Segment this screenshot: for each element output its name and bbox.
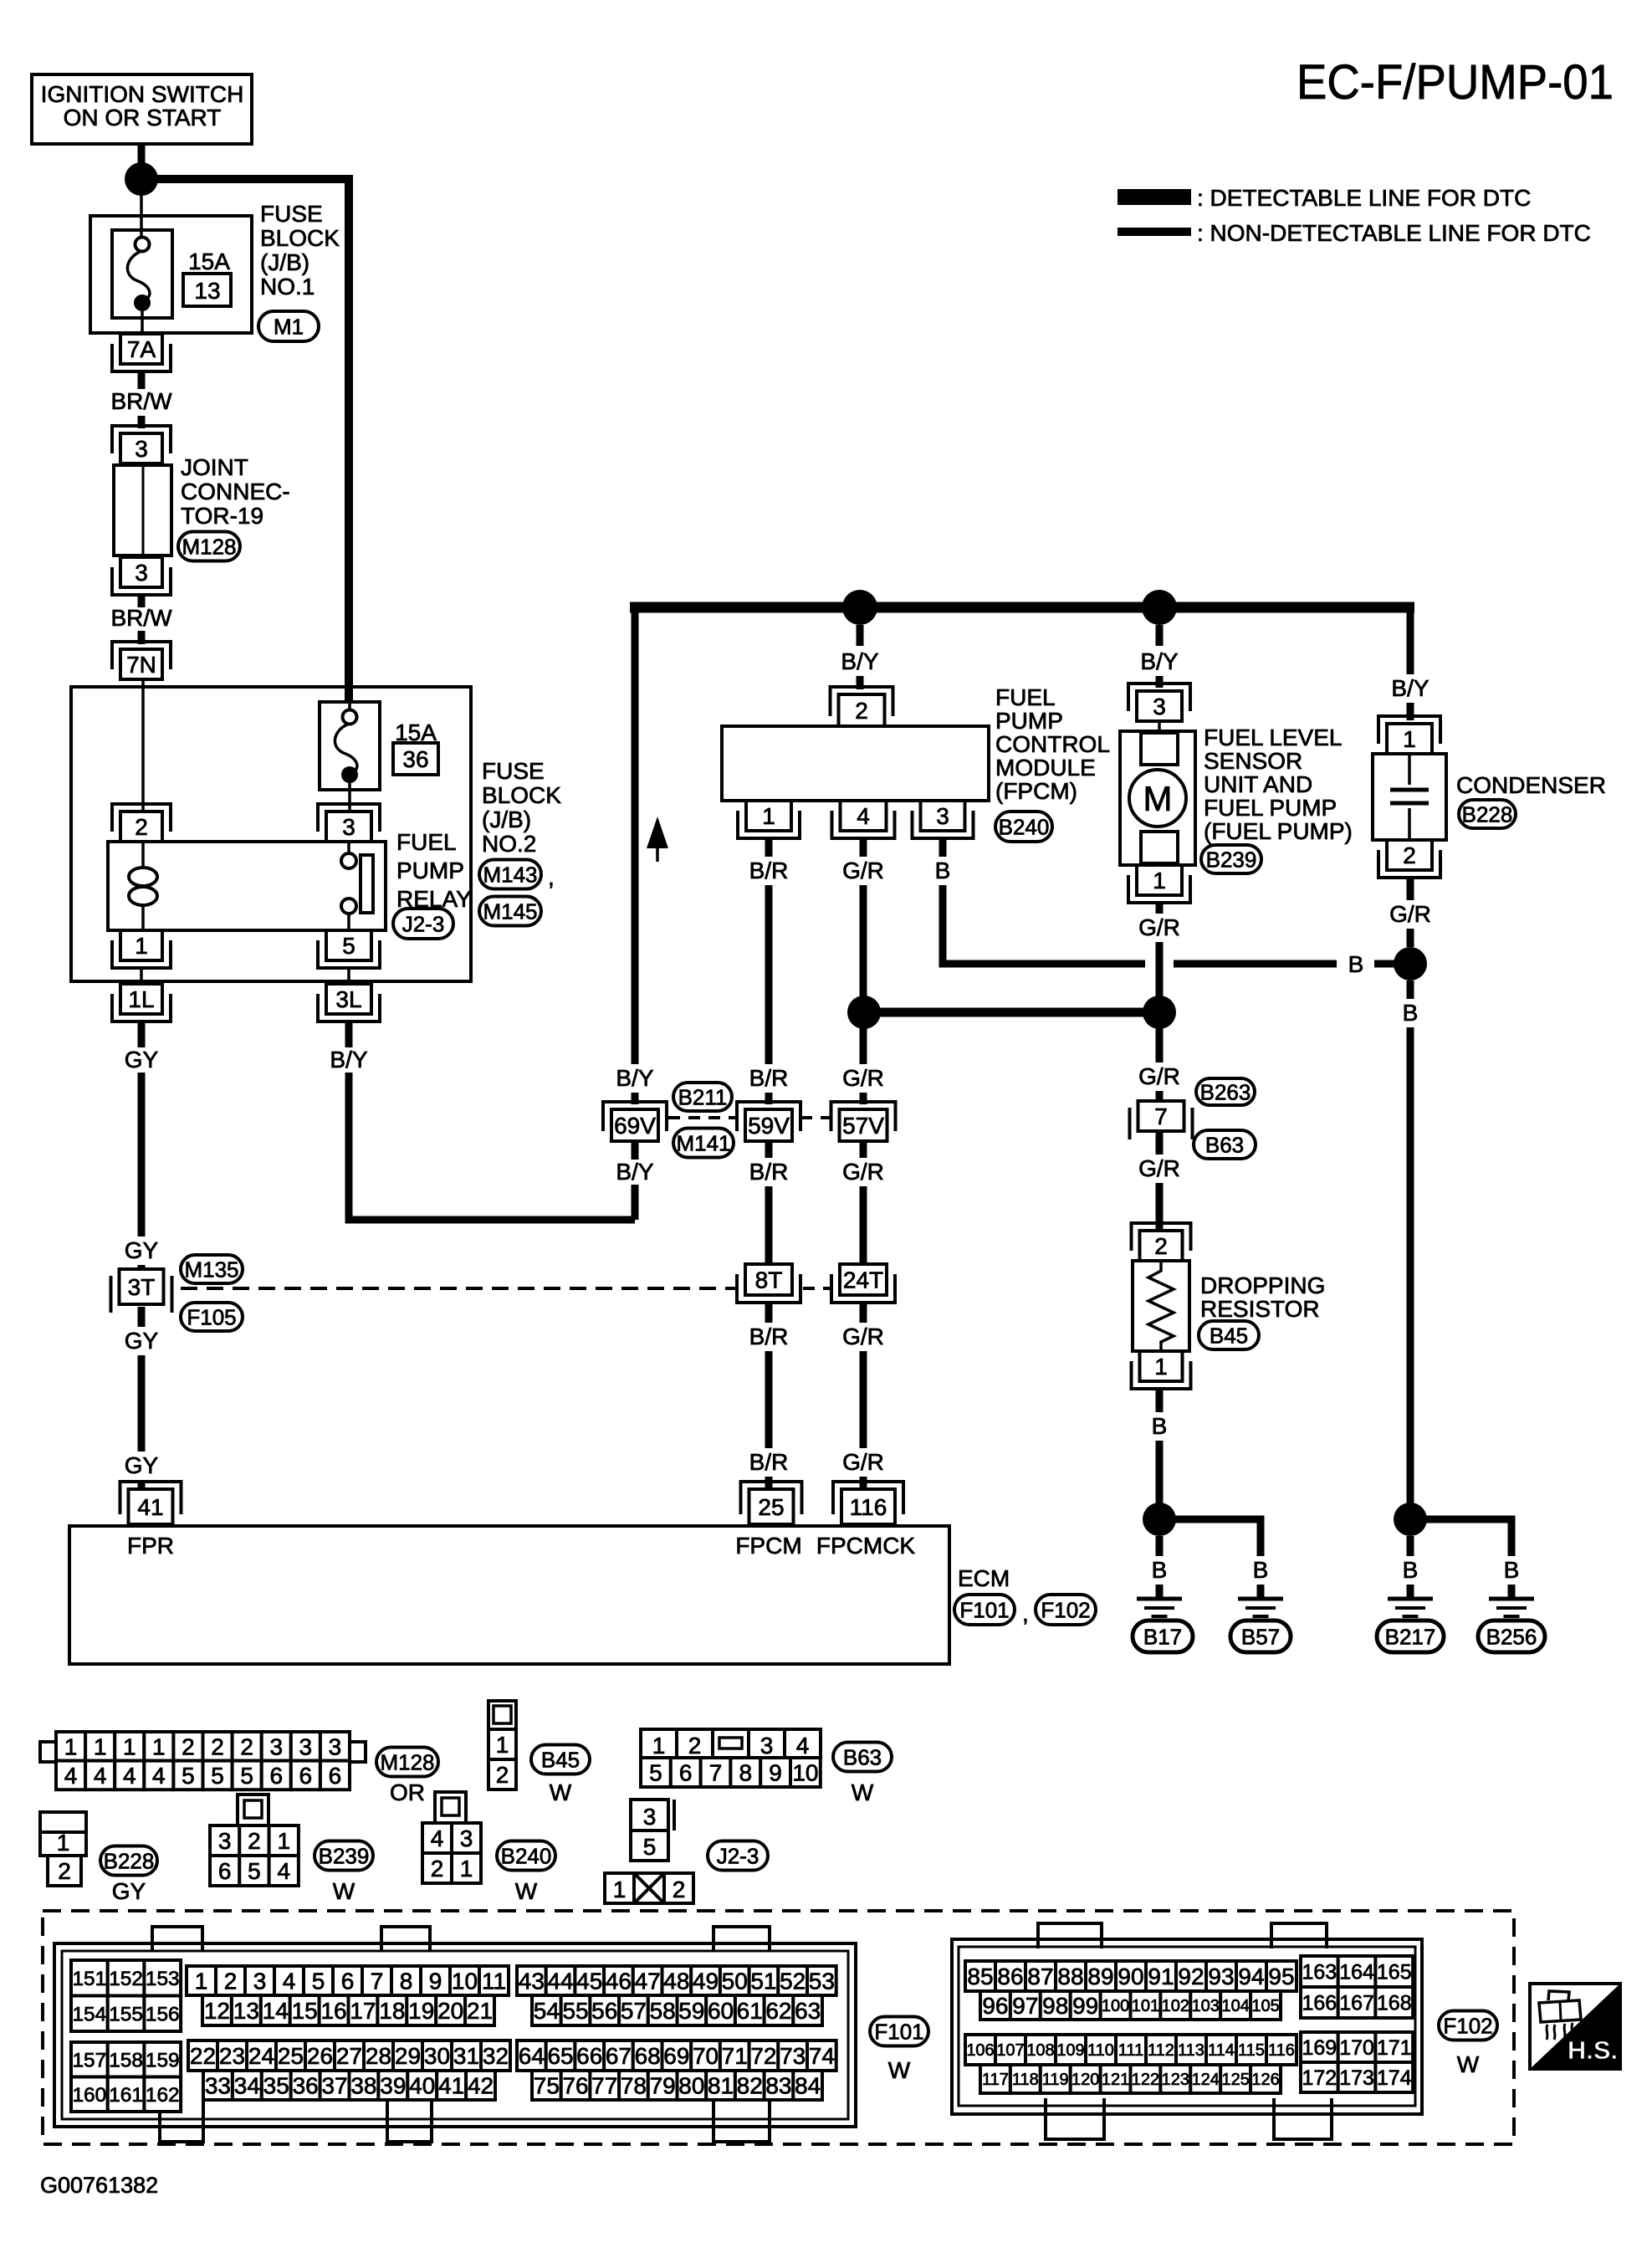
svg-text:114: 114 xyxy=(1208,2041,1235,2060)
svg-text:100: 100 xyxy=(1102,1997,1129,2015)
G/R cross bus wire xyxy=(864,1008,1159,1017)
wire 24T to ECM pin 116 (G/R) xyxy=(860,1303,867,1489)
relay pin 5 xyxy=(318,930,380,968)
svg-text:M1: M1 xyxy=(274,314,304,339)
wire FPCM pin4 to 57V (G/R) xyxy=(860,838,867,1104)
svg-text:H.S.: H.S. xyxy=(1568,2035,1618,2065)
svg-text:173: 173 xyxy=(1339,2066,1374,2090)
svg-text:87: 87 xyxy=(1027,1964,1053,1989)
svg-text:G/R: G/R xyxy=(842,1449,884,1475)
label G/R below connector 7 xyxy=(1138,1155,1180,1181)
svg-text:170: 170 xyxy=(1339,2036,1374,2060)
svg-text:2: 2 xyxy=(855,698,868,724)
label ECM xyxy=(958,1565,1010,1591)
wire 57V to 24T (G/R) xyxy=(860,1141,867,1264)
label BR/W upper xyxy=(110,388,172,414)
pin 7N of fuse block no.2 xyxy=(112,642,171,679)
wire branch to ground B57 xyxy=(1159,1519,1261,1599)
svg-text:103: 103 xyxy=(1192,1997,1220,2015)
F101 top tabs xyxy=(152,1927,770,1952)
label GY above 3T xyxy=(125,1237,159,1263)
svg-text:62: 62 xyxy=(765,1998,791,2024)
label B/Y above condenser xyxy=(1391,675,1429,701)
label FPCMCK pin name xyxy=(816,1533,916,1559)
svg-text:B/R: B/R xyxy=(749,1449,789,1475)
svg-text:9: 9 xyxy=(429,1969,442,1994)
svg-text:161: 161 xyxy=(109,2084,143,2107)
label FUSE BLOCK (J/B) NO.1 xyxy=(260,201,340,300)
svg-text:24: 24 xyxy=(248,2043,274,2069)
svg-text:85: 85 xyxy=(967,1964,993,1989)
ground symbol B57 xyxy=(1238,1599,1283,1616)
wire bus corner to condenser pin 1 xyxy=(1407,603,1414,720)
dashed link 69V-59V xyxy=(668,1116,737,1119)
dashed harness box xyxy=(43,1911,1514,2144)
svg-text:1: 1 xyxy=(64,1733,78,1759)
svg-text:FUSE: FUSE xyxy=(482,758,545,784)
relay contact xyxy=(341,842,373,930)
svg-text:2: 2 xyxy=(182,1733,195,1759)
svg-text:1: 1 xyxy=(652,1733,666,1759)
F102 pin grid 163-174 xyxy=(1301,1956,1413,2092)
svg-text:NO.1: NO.1 xyxy=(260,274,315,300)
ECM pin 25 xyxy=(741,1482,802,1524)
svg-text:153: 153 xyxy=(146,1968,180,1990)
svg-text:GY: GY xyxy=(125,1237,159,1263)
F101 pin row 22-32 xyxy=(188,2040,510,2071)
label G/R below 24T xyxy=(842,1324,884,1349)
svg-text:(FPCM): (FPCM) xyxy=(995,778,1077,804)
label FUEL LEVEL SENSOR UNIT AND FUEL PUMP xyxy=(1204,725,1353,844)
svg-text:2: 2 xyxy=(240,1733,253,1759)
label B/R below 59V xyxy=(749,1159,789,1185)
svg-text:2: 2 xyxy=(496,1762,509,1788)
dropping resistor pin 2 xyxy=(1132,1223,1191,1261)
junction dot ground B17/B57 xyxy=(1143,1503,1176,1536)
fuel pump pin 3 xyxy=(1128,684,1190,721)
svg-text:G/R: G/R xyxy=(1138,1155,1180,1181)
svg-text:G/R: G/R xyxy=(842,1324,884,1349)
svg-text:B/Y: B/Y xyxy=(1391,675,1429,701)
svg-text:1: 1 xyxy=(1403,726,1416,752)
title EC-F/PUMP-01 xyxy=(1297,55,1614,110)
svg-text:163: 163 xyxy=(1302,1961,1337,1984)
svg-text:51: 51 xyxy=(750,1969,776,1994)
svg-text:G/R: G/R xyxy=(1138,914,1180,940)
svg-text:90: 90 xyxy=(1118,1964,1143,1989)
svg-text:B: B xyxy=(1152,1557,1168,1583)
label DROPPING RESISTOR xyxy=(1200,1272,1325,1322)
svg-text:22: 22 xyxy=(190,2043,216,2069)
svg-text:F101: F101 xyxy=(874,2019,923,2044)
svg-text:6: 6 xyxy=(341,1969,355,1994)
wire branch to ground B256 xyxy=(1410,1519,1511,1599)
svg-text:W: W xyxy=(1457,2051,1480,2077)
svg-text:30: 30 xyxy=(424,2043,450,2069)
svg-text:B: B xyxy=(1152,1413,1168,1439)
svg-text:109: 109 xyxy=(1056,2041,1084,2060)
svg-text:164: 164 xyxy=(1339,1961,1374,1984)
svg-text:B/Y: B/Y xyxy=(330,1047,367,1073)
svg-text:2: 2 xyxy=(135,814,148,840)
label B/R below 8T xyxy=(749,1324,789,1349)
fuse 15A-36 symbol xyxy=(320,702,380,812)
connector B239 oval xyxy=(1201,845,1261,873)
svg-text:104: 104 xyxy=(1221,1997,1249,2015)
fuse 15A-13 symbol xyxy=(112,230,172,334)
svg-text:4: 4 xyxy=(64,1763,78,1789)
junction dot G/R bus right xyxy=(1143,996,1176,1029)
svg-text:99: 99 xyxy=(1072,1993,1098,2019)
wire connector 7 to dropping resistor (G/R) xyxy=(1156,1131,1164,1231)
pinout B63 grid row2 xyxy=(641,1758,821,1787)
svg-text:13: 13 xyxy=(233,1998,259,2024)
svg-text:110: 110 xyxy=(1087,2041,1114,2060)
svg-text:B256: B256 xyxy=(1486,1624,1537,1649)
ECM connector F101 shell xyxy=(54,1943,856,2127)
label BR/W lower xyxy=(110,605,172,631)
svg-text:105: 105 xyxy=(1251,1997,1279,2015)
svg-text:106: 106 xyxy=(966,2041,994,2060)
dashed link 3T-8T xyxy=(181,1287,736,1290)
svg-text:118: 118 xyxy=(1012,2071,1039,2089)
wire 7N to relay pin 2 xyxy=(141,679,145,812)
junction dot bus to FPCM xyxy=(842,590,877,625)
svg-text:75: 75 xyxy=(534,2073,560,2099)
svg-text:PUMP: PUMP xyxy=(995,708,1063,734)
svg-text:EC-F/PUMP-01: EC-F/PUMP-01 xyxy=(1297,55,1614,110)
dashed link 59V-57V xyxy=(800,1116,831,1119)
connector M143 oval xyxy=(479,860,555,891)
svg-text:2: 2 xyxy=(224,1969,238,1994)
svg-text:83: 83 xyxy=(765,2073,791,2099)
svg-text:78: 78 xyxy=(621,2073,647,2099)
junction dot ground B217/B256 xyxy=(1394,1503,1427,1536)
F101 pin row 12-21 xyxy=(202,1995,494,2025)
svg-text:93: 93 xyxy=(1208,1964,1234,1989)
pin 3L xyxy=(318,984,380,1021)
svg-text:5: 5 xyxy=(312,1969,325,1994)
svg-text:W: W xyxy=(333,1878,355,1904)
pinout B239 grid xyxy=(210,1825,299,1886)
svg-text:3: 3 xyxy=(269,1733,283,1759)
svg-text:7A: 7A xyxy=(127,336,156,362)
relay pin 3 xyxy=(318,804,380,842)
svg-text:67: 67 xyxy=(606,2043,632,2069)
junction dot bus to fuel pump xyxy=(1142,590,1177,625)
svg-text:OR: OR xyxy=(390,1779,425,1805)
svg-text:3: 3 xyxy=(135,560,148,586)
fuse number 36 box xyxy=(393,743,438,775)
svg-text:35: 35 xyxy=(263,2073,289,2099)
label FPCM pin name xyxy=(735,1533,801,1559)
svg-text:5: 5 xyxy=(182,1763,195,1789)
svg-text:98: 98 xyxy=(1042,1993,1068,2019)
svg-text:10: 10 xyxy=(452,1969,478,1994)
svg-text:32: 32 xyxy=(483,2043,509,2069)
label W (F101) xyxy=(888,2057,911,2083)
pinout M128 oval xyxy=(376,1748,438,1777)
svg-text:8T: 8T xyxy=(755,1267,783,1293)
label B/Y below 3L xyxy=(330,1047,367,1073)
svg-text:5: 5 xyxy=(248,1858,261,1884)
svg-text:7: 7 xyxy=(709,1760,723,1786)
svg-text:F101: F101 xyxy=(959,1597,1009,1622)
label FUEL PUMP CONTROL MODULE (FPCM) xyxy=(995,684,1110,804)
svg-text:,: , xyxy=(1022,1600,1029,1626)
svg-text:FPCMCK: FPCMCK xyxy=(816,1533,916,1559)
label B below condenser junction xyxy=(1403,1000,1419,1026)
svg-text:80: 80 xyxy=(678,2073,704,2099)
svg-text:B239: B239 xyxy=(1206,847,1257,872)
svg-text:5: 5 xyxy=(342,933,355,959)
svg-text:FUEL: FUEL xyxy=(396,829,457,855)
svg-text:41: 41 xyxy=(137,1494,163,1520)
pinout B228 cells xyxy=(40,1812,86,1886)
svg-text:24T: 24T xyxy=(843,1267,883,1293)
svg-text:B/Y: B/Y xyxy=(841,648,878,674)
svg-text:ECM: ECM xyxy=(958,1565,1010,1591)
svg-text:B228: B228 xyxy=(104,1848,155,1873)
svg-text:4: 4 xyxy=(857,803,870,829)
svg-text:162: 162 xyxy=(146,2084,180,2107)
svg-text:B211: B211 xyxy=(678,1084,728,1109)
svg-text:GY: GY xyxy=(125,1452,159,1478)
svg-text:B/Y: B/Y xyxy=(1140,648,1178,674)
svg-text:50: 50 xyxy=(722,1969,748,1994)
svg-text:125: 125 xyxy=(1221,2071,1249,2089)
FPCM pin 1 xyxy=(738,801,800,838)
svg-text:61: 61 xyxy=(737,1998,763,2024)
connector 3T xyxy=(111,1269,172,1313)
svg-text:,: , xyxy=(548,864,555,890)
svg-text:112: 112 xyxy=(1148,2041,1174,2060)
connector F102 oval (ECM) xyxy=(1036,1595,1096,1625)
wire 59V to 8T (B/R) xyxy=(765,1141,773,1264)
svg-text:F102: F102 xyxy=(1041,1597,1090,1622)
svg-text:B217: B217 xyxy=(1385,1624,1436,1649)
svg-text:M128: M128 xyxy=(380,1749,434,1774)
label B under FPCM xyxy=(935,858,951,883)
ECM pin 41 xyxy=(120,1482,182,1524)
svg-text:3: 3 xyxy=(218,1828,232,1854)
svg-text:GY: GY xyxy=(125,1047,159,1073)
svg-text:13: 13 xyxy=(194,278,220,304)
fuel pump relay box xyxy=(108,842,386,930)
label 15A (fuse 13) xyxy=(188,248,230,274)
svg-text:8: 8 xyxy=(400,1969,413,1994)
svg-text:14: 14 xyxy=(263,1998,289,2024)
svg-text:W: W xyxy=(550,1779,572,1805)
wire 1L to 3T (GY) xyxy=(138,1021,146,1272)
wire relay pin 1 to 1L xyxy=(140,968,143,984)
wire to ground B217 xyxy=(1407,1536,1414,1599)
label B/Y above FPCM xyxy=(841,648,878,674)
wire junction to ground junction (B) xyxy=(1407,981,1414,1504)
wire corner up through 69V to bus xyxy=(632,603,639,1220)
svg-text:108: 108 xyxy=(1026,2041,1054,2060)
ground symbol B256 xyxy=(1489,1599,1534,1616)
FPCM pin 3 xyxy=(913,801,974,838)
svg-text:J2-3: J2-3 xyxy=(402,911,445,936)
svg-text:BLOCK: BLOCK xyxy=(482,782,561,808)
fuse number 13 box xyxy=(183,274,231,306)
svg-text:4: 4 xyxy=(283,1969,296,1994)
svg-text:7: 7 xyxy=(1154,1103,1168,1129)
svg-text:F105: F105 xyxy=(187,1304,236,1329)
relay coil xyxy=(129,842,157,930)
svg-text:1: 1 xyxy=(57,1830,70,1856)
svg-text:B: B xyxy=(1348,951,1364,977)
svg-text:38: 38 xyxy=(350,2073,376,2099)
wire resistor to ground junction (B) xyxy=(1156,1389,1164,1504)
label G/R below condenser xyxy=(1389,901,1431,927)
svg-text:21: 21 xyxy=(467,1998,493,2024)
svg-text:2: 2 xyxy=(1154,1233,1168,1259)
connector F102 oval (pinout) xyxy=(1439,2011,1497,2040)
svg-text:CONTROL: CONTROL xyxy=(995,731,1110,757)
pinout B45 cells xyxy=(488,1701,516,1790)
label B on pin3 wire xyxy=(1348,951,1364,977)
label W (B240) xyxy=(515,1878,538,1904)
svg-text:F102: F102 xyxy=(1443,2013,1492,2038)
svg-text:63: 63 xyxy=(795,1998,821,2024)
wire ignition switch to splice xyxy=(138,144,146,167)
svg-text:53: 53 xyxy=(809,1969,835,1994)
svg-text:84: 84 xyxy=(795,2073,821,2099)
F101 pin row 75-84 xyxy=(532,2071,822,2100)
svg-text:2: 2 xyxy=(688,1733,702,1759)
svg-text:27: 27 xyxy=(336,2043,362,2069)
svg-text:B: B xyxy=(1403,1557,1419,1583)
label G/R below 57V xyxy=(842,1159,884,1185)
svg-text:122: 122 xyxy=(1132,2071,1159,2089)
svg-text:6: 6 xyxy=(218,1858,232,1884)
dropping resistor pin 1 xyxy=(1132,1351,1191,1389)
wire 3L to 69V corner (B/Y) xyxy=(349,1021,635,1220)
svg-text:42: 42 xyxy=(468,2073,494,2099)
svg-text:15A: 15A xyxy=(188,248,230,274)
svg-text:54: 54 xyxy=(534,1998,560,2024)
fuel pump motor M xyxy=(1129,770,1186,827)
svg-text:117: 117 xyxy=(982,2071,1009,2089)
connector 8T xyxy=(737,1264,800,1303)
svg-text:: DETECTABLE LINE FOR DTC: : DETECTABLE LINE FOR DTC xyxy=(1197,185,1531,211)
F102 pin row 96-105 xyxy=(980,1991,1281,2020)
label B/R above 59V xyxy=(749,1065,789,1091)
svg-text:1: 1 xyxy=(123,1733,136,1759)
svg-text:ON OR START: ON OR START xyxy=(64,105,222,131)
ground symbol B217 xyxy=(1388,1599,1433,1616)
ground B17 oval xyxy=(1133,1621,1193,1652)
svg-text:19: 19 xyxy=(408,1998,434,2024)
svg-text:2: 2 xyxy=(211,1733,224,1759)
svg-text:B/R: B/R xyxy=(749,1065,789,1091)
svg-text:86: 86 xyxy=(997,1964,1023,1989)
pin 7A of fuse block no.1 xyxy=(112,334,171,371)
svg-text:B: B xyxy=(1253,1557,1269,1583)
svg-text:172: 172 xyxy=(1302,2066,1337,2090)
svg-text:49: 49 xyxy=(693,1969,719,1994)
connector M135 oval xyxy=(181,1255,243,1283)
connector B228 oval xyxy=(1459,800,1516,828)
label GY below 1L xyxy=(125,1047,159,1073)
svg-text:FPR: FPR xyxy=(127,1533,174,1559)
condenser body xyxy=(1373,754,1446,840)
svg-text:57: 57 xyxy=(621,1998,647,2024)
svg-text:1: 1 xyxy=(613,1877,627,1902)
svg-text:89: 89 xyxy=(1087,1964,1113,1989)
svg-text:73: 73 xyxy=(780,2043,806,2069)
svg-text:115: 115 xyxy=(1238,2041,1265,2060)
connector 7 xyxy=(1130,1101,1193,1139)
svg-text:52: 52 xyxy=(780,1969,806,1994)
ground symbol B17 xyxy=(1137,1599,1182,1616)
svg-text:CONNEC-: CONNEC- xyxy=(181,479,290,504)
label B at B217 xyxy=(1403,1557,1419,1583)
FPCM pin 4 xyxy=(832,801,895,838)
label B/R under FPCM xyxy=(749,858,789,883)
svg-text:12: 12 xyxy=(204,1998,230,2024)
svg-text:M128: M128 xyxy=(182,534,236,559)
pinout J2-3 cell 5 xyxy=(631,1830,668,1861)
label B/Y above pump xyxy=(1140,648,1178,674)
pin 3 bottom of joint connector xyxy=(112,557,171,595)
svg-text:66: 66 xyxy=(576,2043,602,2069)
svg-text:81: 81 xyxy=(708,2073,734,2099)
svg-text:1: 1 xyxy=(762,803,775,829)
svg-text:: NON-DETECTABLE LINE FOR DTC: : NON-DETECTABLE LINE FOR DTC xyxy=(1197,220,1591,246)
svg-text:4: 4 xyxy=(277,1858,290,1884)
svg-text:BR/W: BR/W xyxy=(110,605,172,631)
legend label detectable xyxy=(1197,185,1531,211)
joint connector-19 body xyxy=(114,465,171,556)
wire FPCM pin1 to 59V (B/R) xyxy=(765,838,773,1104)
connector F101 oval (ECM) xyxy=(954,1595,1029,1626)
top bus wire (B/Y) xyxy=(630,602,1414,613)
svg-text:5: 5 xyxy=(240,1763,253,1789)
svg-text:2: 2 xyxy=(1403,842,1416,868)
svg-text:113: 113 xyxy=(1178,2041,1204,2060)
connector M128 oval xyxy=(178,532,240,561)
svg-text:2: 2 xyxy=(431,1856,444,1882)
connector M145 oval xyxy=(479,897,541,926)
svg-text:174: 174 xyxy=(1377,2066,1412,2090)
svg-text:7N: 7N xyxy=(126,652,156,678)
legend detectable line sample xyxy=(1118,189,1191,205)
svg-text:1L: 1L xyxy=(128,986,154,1012)
ground B57 oval xyxy=(1230,1621,1291,1652)
label G/R above connector 7 xyxy=(1138,1063,1180,1089)
svg-text:G/R: G/R xyxy=(1389,901,1431,927)
H.S. logo xyxy=(1530,1984,1620,2069)
connector B240 oval xyxy=(995,812,1052,842)
wire pump pin1 to junction (G/R) xyxy=(1156,903,1164,997)
svg-text:8: 8 xyxy=(739,1760,753,1786)
svg-text:44: 44 xyxy=(547,1969,573,1994)
svg-text:58: 58 xyxy=(650,1998,676,2024)
svg-text:5: 5 xyxy=(649,1760,662,1786)
ECM pin 116 xyxy=(833,1482,903,1524)
label CONDENSER xyxy=(1456,772,1606,798)
svg-text:36: 36 xyxy=(293,2073,319,2099)
F101 pin grid 151-162 xyxy=(71,1960,181,2112)
svg-text:101: 101 xyxy=(1132,1997,1159,2015)
label 15A (fuse 36) xyxy=(395,719,437,745)
wire splice to fuse block no.1 xyxy=(140,194,143,238)
svg-text:B: B xyxy=(935,858,951,883)
pinout B240 oval xyxy=(497,1841,555,1871)
